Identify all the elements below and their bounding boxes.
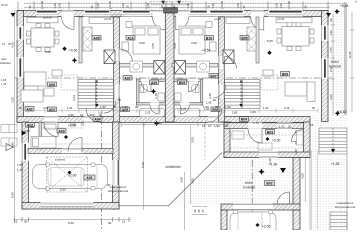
svg-text:1,50: 1,50: [122, 105, 128, 109]
svg-text:zöldfelület: zöldfelület: [165, 165, 180, 169]
svg-text:10,45: 10,45: [348, 51, 352, 58]
svg-text:15: 15: [201, 209, 205, 213]
svg-text:1,05: 1,05: [1, 78, 7, 82]
svg-text:1,05: 1,05: [145, 111, 151, 115]
svg-text:burkolat: burkolat: [243, 186, 255, 190]
svg-text:pa:0,60: pa:0,60: [43, 16, 52, 20]
svg-text:B03: B03: [267, 130, 273, 134]
svg-text:p:0,90: p:0,90: [104, 17, 112, 21]
svg-text:térkő: térkő: [331, 60, 339, 64]
svg-text:5,30: 5,30: [141, 162, 145, 168]
svg-text:2,45: 2,45: [208, 93, 212, 99]
svg-text:3,60: 3,60: [329, 94, 333, 100]
svg-text:3,00: 3,00: [191, 41, 197, 45]
svg-text:5,50: 5,50: [11, 192, 15, 198]
svg-text:30: 30: [160, 5, 164, 9]
svg-text:10: 10: [80, 113, 84, 117]
svg-text:A07: A07: [124, 76, 130, 80]
svg-text:B06: B06: [282, 72, 288, 76]
svg-text:+2.00: +2.00: [272, 139, 281, 143]
svg-text:2,45: 2,45: [154, 93, 158, 99]
svg-text:30: 30: [28, 5, 32, 9]
svg-text:10: 10: [81, 123, 85, 127]
svg-text:1,00: 1,00: [58, 3, 62, 9]
svg-text:zöldfelület: zöldfelület: [0, 61, 11, 65]
svg-text:30: 30: [215, 105, 219, 109]
svg-text:p:0,90: p:0,90: [277, 17, 285, 21]
svg-text:30: 30: [19, 106, 22, 110]
svg-text:2,70: 2,70: [253, 121, 259, 125]
svg-text:A05: A05: [93, 36, 99, 40]
svg-text:A03: A03: [58, 129, 64, 133]
svg-text:30: 30: [312, 106, 315, 110]
svg-text:30: 30: [107, 183, 111, 187]
svg-text:30: 30: [242, 5, 246, 9]
svg-text:10: 10: [126, 5, 130, 9]
svg-text:±0,00: ±0,00: [1, 3, 8, 7]
svg-text:5,00: 5,00: [60, 188, 66, 192]
svg-text:15: 15: [2, 42, 5, 46]
svg-text:90: 90: [213, 98, 216, 102]
svg-text:15: 15: [122, 220, 126, 224]
svg-text:3,65: 3,65: [173, 43, 177, 49]
svg-text:+8,45: +8,45: [340, 4, 349, 8]
svg-text:1,50: 1,50: [17, 163, 23, 167]
svg-text:3,00: 3,00: [180, 177, 184, 183]
svg-text:térkő: térkő: [245, 181, 253, 185]
svg-text:30: 30: [329, 18, 333, 22]
svg-text:1,50: 1,50: [294, 149, 298, 155]
svg-text:4,10: 4,10: [11, 42, 15, 48]
svg-text:A02: A02: [49, 108, 55, 112]
svg-text:2,00: 2,00: [68, 113, 74, 117]
svg-text:30: 30: [90, 5, 94, 9]
svg-text:2,04: 2,04: [72, 95, 76, 101]
svg-text:3,45: 3,45: [43, 106, 49, 110]
svg-text:1,00: 1,00: [236, 3, 240, 9]
svg-text:1,44: 1,44: [1, 82, 7, 86]
svg-text:A06: A06: [49, 83, 55, 87]
svg-text:3,00: 3,00: [191, 178, 195, 184]
svg-text:1,80: 1,80: [232, 111, 238, 115]
svg-text:1,00: 1,00: [186, 3, 190, 9]
svg-text:5,00: 5,00: [68, 221, 74, 225]
svg-text:2,40: 2,40: [24, 129, 30, 133]
svg-text:1,10: 1,10: [268, 158, 272, 164]
svg-text:1,60: 1,60: [329, 30, 333, 36]
svg-text:1,900: 1,900: [87, 113, 95, 117]
svg-text:1,80: 1,80: [98, 111, 104, 115]
svg-text:B09: B09: [179, 81, 185, 85]
svg-text:3,45: 3,45: [250, 110, 256, 114]
svg-text:3,45: 3,45: [284, 106, 290, 110]
svg-text:1,90: 1,90: [100, 105, 106, 109]
svg-text:+2.00: +2.00: [262, 225, 271, 229]
svg-text:B05: B05: [241, 36, 247, 40]
svg-text:30: 30: [304, 5, 308, 9]
svg-text:A01: A01: [86, 176, 92, 180]
svg-text:2,40: 2,40: [11, 142, 15, 148]
svg-text:B07: B07: [210, 74, 216, 78]
svg-text:10: 10: [207, 5, 211, 9]
svg-text:A09: A09: [151, 81, 157, 85]
svg-text:B10: B10: [206, 36, 212, 40]
svg-text:1,05: 1,05: [206, 101, 212, 105]
svg-text:3,00: 3,00: [139, 41, 145, 45]
svg-text:30: 30: [24, 220, 28, 224]
svg-text:1,30: 1,30: [211, 3, 215, 9]
svg-text:+0.50: +0.50: [69, 49, 78, 53]
svg-text:p:0,90: p:0,90: [108, 0, 112, 8]
svg-text:30: 30: [288, 124, 292, 128]
svg-text:2,00: 2,00: [70, 123, 76, 127]
svg-text:15: 15: [310, 123, 314, 127]
svg-text:p:0,90: p:0,90: [220, 0, 224, 8]
svg-text:1,30: 1,30: [279, 3, 283, 9]
svg-text:30: 30: [113, 105, 117, 109]
svg-text:B02: B02: [266, 182, 272, 186]
svg-text:2,10: 2,10: [329, 66, 333, 72]
svg-text:zöldtető: zöldtető: [55, 158, 66, 162]
svg-text:1,00: 1,00: [275, 3, 279, 9]
svg-text:1,90: 1,90: [204, 107, 210, 111]
svg-text:1,30: 1,30: [121, 3, 125, 9]
svg-text:5,65: 5,65: [267, 39, 273, 43]
svg-text:30: 30: [172, 5, 176, 9]
svg-text:1,05: 1,05: [181, 107, 187, 111]
svg-text:3,65: 3,65: [151, 43, 155, 49]
svg-text:A04: A04: [94, 118, 100, 122]
svg-text:30: 30: [8, 42, 11, 46]
svg-text:1,90: 1,90: [225, 105, 231, 109]
svg-text:1,30: 1,30: [67, 106, 73, 110]
svg-text:30: 30: [108, 221, 112, 225]
svg-text:lefolyócsatorna: lefolyócsatorna: [108, 189, 129, 193]
svg-text:1,00: 1,00: [146, 3, 150, 9]
svg-text:2,00: 2,00: [191, 137, 195, 143]
svg-text:B04: B04: [241, 118, 247, 122]
svg-text:90: 90: [118, 98, 121, 102]
svg-text:1,30: 1,30: [53, 3, 57, 9]
svg-text:p:0,90: p:0,90: [287, 0, 291, 8]
svg-text:+0.50: +0.50: [202, 49, 211, 53]
svg-text:lefolyócsatorna: lefolyócsatorna: [335, 205, 356, 209]
svg-text:1,20: 1,20: [17, 168, 23, 172]
svg-text:+1,65: +1,65: [331, 162, 340, 166]
svg-text:1,75: 1,75: [329, 47, 333, 53]
svg-text:1,30: 1,30: [263, 106, 269, 110]
svg-text:15: 15: [14, 220, 18, 224]
svg-text:1,00: 1,00: [96, 3, 100, 9]
svg-text:2,70: 2,70: [279, 124, 285, 128]
svg-text:A10: A10: [127, 36, 133, 40]
svg-text:5,65: 5,65: [45, 50, 51, 54]
svg-text:p:0,90: p:0,90: [214, 17, 222, 21]
svg-text:3,00: 3,00: [301, 173, 305, 179]
svg-text:1,00: 1,00: [11, 97, 15, 103]
svg-text:30: 30: [135, 105, 139, 109]
svg-text:p:0,90: p:0,90: [40, 0, 44, 8]
